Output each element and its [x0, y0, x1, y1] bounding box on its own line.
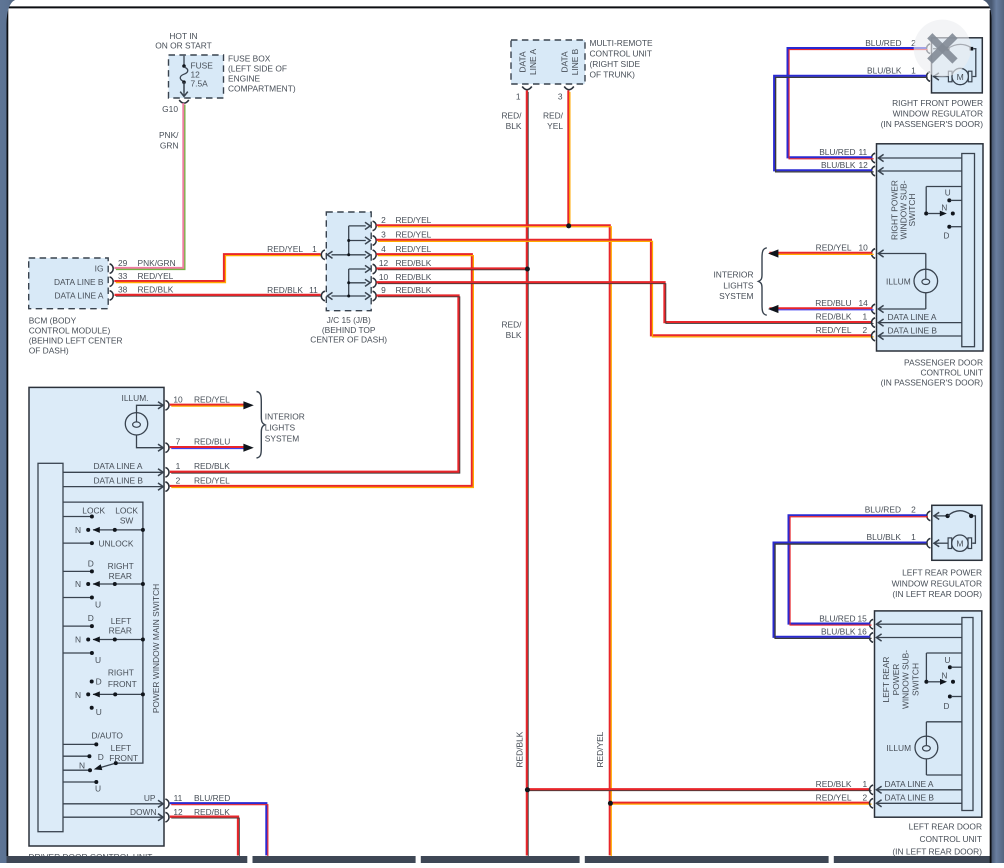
svg-text:RED/YEL: RED/YEL [816, 243, 852, 253]
svg-text:WINDOW REGULATOR: WINDOW REGULATOR [893, 109, 983, 119]
svg-text:D: D [98, 752, 104, 762]
BCM (Body Control Module) U1 [29, 258, 109, 309]
passenger door control unit box [877, 144, 984, 351]
svg-text:2: 2 [863, 792, 868, 802]
wire BLU/RED driver pin 11 down [170, 803, 267, 855]
page frame right edge [990, 10, 992, 863]
wire RED/BLK BCM pin 38 to J/C 15 pin 11 [115, 285, 323, 296]
svg-text:(IN LEFT REAR DOOR): (IN LEFT REAR DOOR) [892, 847, 982, 857]
J/C 15 pin 2 [373, 215, 432, 231]
J/C 15 pin 11 [321, 291, 325, 301]
left rear regulator pin 2 [865, 504, 940, 520]
svg-text:1: 1 [863, 312, 868, 322]
junction RED/BLK J/C pin 12 [525, 267, 530, 272]
svg-text:SWITCH: SWITCH [907, 193, 917, 226]
wire BLU/RED left rear pin 15 to regulator pin 2 [789, 515, 927, 623]
svg-text:REAR: REAR [109, 571, 132, 581]
switch LOCK SW [63, 505, 145, 548]
svg-text:BLK: BLK [506, 330, 522, 340]
svg-text:RED/: RED/ [501, 110, 522, 120]
svg-text:DATA LINE A: DATA LINE A [888, 312, 937, 322]
svg-text:RED/BLK: RED/BLK [396, 258, 432, 268]
svg-text:U: U [945, 656, 951, 665]
J/C 15 pin 3 [373, 230, 432, 246]
multi-remote pin 1 [516, 87, 532, 102]
svg-text:LEFT REAR: LEFT REAR [881, 657, 891, 703]
right front regulator pin 1 [867, 65, 939, 81]
svg-text:G10: G10 [162, 104, 178, 114]
left rear internal bus bar [962, 618, 973, 811]
svg-text:ENGINE: ENGINE [228, 74, 261, 84]
svg-text:CENTER OF DASH): CENTER OF DASH) [310, 335, 387, 345]
svg-text:RED/YEL: RED/YEL [194, 394, 230, 404]
wire RED/YEL J/C pin 2 to long vertical run [376, 225, 611, 857]
svg-text:RED/BLK: RED/BLK [816, 312, 852, 322]
close button [914, 20, 971, 77]
svg-text:12: 12 [379, 258, 389, 268]
svg-text:RED/: RED/ [543, 110, 564, 120]
svg-text:29: 29 [118, 258, 128, 268]
svg-text:(RIGHT SIDE: (RIGHT SIDE [590, 59, 641, 69]
svg-text:RIGHT: RIGHT [108, 668, 134, 678]
wire RED/BLK J/C pin 10 to passenger door pin 1 [377, 282, 873, 322]
svg-text:3: 3 [558, 92, 563, 102]
svg-text:14: 14 [859, 298, 869, 308]
svg-text:16: 16 [858, 627, 868, 637]
svg-text:1: 1 [863, 779, 868, 789]
left rear sub-switch contacts [924, 653, 962, 711]
driver door pin 11 UP [63, 793, 230, 809]
svg-text:D: D [944, 702, 950, 711]
wire RED/YEL BCM pin 33 to J/C 15 pin 1 [114, 244, 322, 282]
junction connector J/C 15 (J/B) [326, 212, 371, 311]
svg-text:BLU/BLK: BLU/BLK [821, 160, 856, 170]
svg-text:RED/: RED/ [501, 320, 522, 330]
svg-text:WINDOW REGULATOR: WINDOW REGULATOR [892, 578, 982, 588]
left rear door pin 16 [821, 627, 962, 643]
svg-text:UNLOCK: UNLOCK [99, 538, 134, 548]
multi-remote pin 3 [558, 87, 574, 102]
passenger door pin 1 DATA LINE A [816, 312, 962, 328]
wire RED/YEL multi-remote pin 3 drop [543, 90, 570, 226]
svg-text:LEFT: LEFT [111, 743, 131, 753]
label RIGHT POWER WINDOW SUB-SWITCH [890, 180, 917, 240]
svg-text:LIGHTS: LIGHTS [723, 280, 754, 290]
svg-text:D/AUTO: D/AUTO [91, 731, 123, 741]
switch LEFT REAR [63, 613, 145, 665]
svg-text:N: N [75, 525, 81, 535]
svg-text:N: N [941, 203, 947, 212]
switch RIGHT REAR [63, 558, 145, 609]
svg-text:FRONT: FRONT [108, 679, 137, 689]
svg-text:2: 2 [381, 215, 386, 225]
svg-text:U: U [95, 599, 101, 609]
svg-text:CONTROL MODULE): CONTROL MODULE) [29, 326, 111, 336]
J/C 15 pin 4 [373, 244, 432, 260]
svg-text:DOWN: DOWN [130, 807, 157, 817]
svg-text:7.5A: 7.5A [191, 79, 209, 89]
svg-text:DATA LINE A: DATA LINE A [54, 291, 103, 301]
wire RED/BLK driver pin 12 down [170, 817, 238, 856]
svg-text:M: M [956, 539, 963, 549]
svg-text:(BEHIND LEFT CENTER: (BEHIND LEFT CENTER [29, 336, 123, 346]
driver door pin 7 [158, 437, 230, 453]
passenger door pin 11 [819, 147, 962, 163]
svg-text:RED/BLK: RED/BLK [816, 779, 852, 789]
svg-text:(LEFT SIDE OF: (LEFT SIDE OF [228, 64, 287, 74]
svg-text:LEFT REAR POWER: LEFT REAR POWER [902, 568, 982, 578]
wire BLU/BLK passenger pin 12 to right front regulator pin 1 [774, 76, 926, 171]
svg-text:BLU/BLK: BLU/BLK [821, 627, 856, 637]
svg-text:D: D [88, 558, 94, 568]
svg-text:10: 10 [379, 272, 389, 282]
svg-text:1: 1 [911, 65, 916, 75]
wire RED/BLK J/C pin 12 to vertical run [377, 267, 527, 269]
wire RED/YEL long vertical to left rear door pin 2 [610, 802, 870, 804]
svg-text:YEL: YEL [547, 121, 563, 131]
svg-text:CONTROL UNIT: CONTROL UNIT [919, 834, 982, 844]
left rear door pin 1 DATA LINE A [816, 779, 962, 795]
svg-text:N: N [942, 672, 948, 681]
wire RED/BLK J/C pin 9 to driver door pin 1 [170, 296, 459, 472]
svg-text:PNK/GRN: PNK/GRN [138, 258, 176, 268]
svg-text:(IN LEFT REAR DOOR): (IN LEFT REAR DOOR) [892, 589, 982, 599]
driver door pin 10 [158, 394, 230, 410]
svg-text:PASSENGER DOOR: PASSENGER DOOR [904, 357, 983, 367]
svg-text:FUSE BOX: FUSE BOX [228, 54, 271, 64]
svg-text:ILLUM: ILLUM [886, 277, 911, 287]
svg-text:11: 11 [309, 285, 318, 295]
svg-text:BCM (BODY: BCM (BODY [29, 316, 77, 326]
svg-text:(IN PASSENGER'S DOOR): (IN PASSENGER'S DOOR) [881, 377, 984, 387]
connector G10 [162, 100, 189, 114]
svg-text:DATA LINE B: DATA LINE B [94, 475, 144, 485]
svg-text:1: 1 [911, 532, 916, 542]
svg-text:N: N [75, 690, 81, 700]
driver door pin 12 DOWN [63, 807, 230, 822]
fuse box FUSE 12 7.5A [169, 55, 224, 98]
svg-text:ON OR START: ON OR START [155, 41, 211, 51]
svg-text:DATA: DATA [518, 51, 528, 73]
svg-text:J/C 15 (J/B): J/C 15 (J/B) [327, 315, 371, 325]
bottom dark boxes row [7, 856, 1004, 863]
svg-text:N: N [79, 761, 85, 771]
svg-text:SW: SW [120, 516, 134, 526]
svg-text:LEFT: LEFT [111, 616, 131, 626]
J/C 15 pin 1 [321, 250, 325, 260]
svg-text:7: 7 [176, 437, 181, 447]
svg-text:2: 2 [176, 475, 181, 485]
svg-text:DATA LINE A: DATA LINE A [94, 461, 143, 471]
lamp ILLUM driver door [122, 393, 163, 448]
right window border bar [983, 0, 1004, 863]
node HOT IN ON OR START [155, 31, 211, 51]
svg-text:DATA LINE A: DATA LINE A [885, 779, 934, 789]
left rear regulator caption [892, 568, 983, 599]
J/C 15 caption [310, 315, 387, 344]
svg-text:33: 33 [118, 271, 128, 281]
svg-text:POWER: POWER [891, 664, 901, 696]
svg-text:(IN PASSENGER'S DOOR): (IN PASSENGER'S DOOR) [881, 119, 984, 129]
svg-text:BLU/RED: BLU/RED [865, 504, 901, 514]
svg-text:CONTROL UNIT: CONTROL UNIT [590, 48, 653, 58]
svg-text:DATA: DATA [560, 51, 570, 73]
svg-text:D: D [88, 613, 94, 623]
svg-text:10: 10 [173, 394, 183, 404]
svg-text:BLU/RED: BLU/RED [819, 613, 855, 623]
svg-text:15: 15 [858, 613, 868, 623]
wire RED/YEL passenger pin 10 to interior lights [768, 249, 874, 257]
svg-text:BLU/RED: BLU/RED [194, 793, 230, 803]
right front regulator caption [881, 98, 984, 129]
svg-text:38: 38 [118, 285, 128, 295]
svg-text:SYSTEM: SYSTEM [265, 434, 299, 444]
label LEFT REAR POWER WINDOW SUB-SWITCH [881, 650, 920, 709]
left rear door pin 2 DATA LINE B [816, 792, 962, 808]
svg-text:OF DASH): OF DASH) [29, 346, 69, 356]
svg-text:PNK/: PNK/ [159, 130, 179, 140]
multi-remote caption [590, 38, 654, 80]
svg-text:UP: UP [144, 793, 156, 803]
svg-text:12: 12 [173, 807, 183, 817]
passenger internal bus bar [962, 154, 975, 347]
switch LEFT FRONT D/AUTO [63, 731, 138, 794]
svg-text:DATA LINE B: DATA LINE B [885, 793, 935, 803]
svg-text:4: 4 [381, 244, 386, 254]
BCM pin 33 [110, 271, 174, 286]
junction RED/YEL bottom [608, 801, 613, 806]
svg-text:RED/YEL: RED/YEL [194, 475, 230, 485]
svg-text:RED/YEL: RED/YEL [595, 731, 605, 767]
svg-text:BLU/BLK: BLU/BLK [867, 532, 902, 542]
svg-text:D: D [944, 232, 950, 241]
multi-remote control unit [511, 40, 585, 84]
svg-text:N: N [75, 579, 81, 589]
svg-text:BLU/RED: BLU/RED [819, 147, 855, 157]
J/C 15 pin 9 [373, 285, 432, 301]
svg-text:OF TRUNK): OF TRUNK) [590, 69, 636, 79]
svg-text:RED/BLK: RED/BLK [194, 461, 230, 471]
svg-text:10: 10 [859, 243, 869, 253]
svg-text:LEFT REAR DOOR: LEFT REAR DOOR [909, 822, 982, 832]
wire RED/BLK long vertical to left rear door pin 1 [527, 788, 870, 790]
svg-text:U: U [945, 189, 951, 198]
passenger door pin 14 [815, 298, 926, 314]
svg-text:IG: IG [95, 264, 104, 274]
brace interior lights system (passenger) [713, 248, 766, 315]
svg-text:(BEHIND TOP: (BEHIND TOP [322, 325, 376, 335]
svg-text:RED/YEL: RED/YEL [138, 271, 174, 281]
svg-text:RED/YEL: RED/YEL [267, 244, 303, 254]
svg-text:RED/BLU: RED/BLU [194, 437, 230, 447]
BCM caption [29, 316, 123, 356]
svg-text:RED/YEL: RED/YEL [396, 230, 432, 240]
J/C 15 pin 12 [373, 258, 432, 274]
svg-text:RED/BLK: RED/BLK [396, 272, 432, 282]
svg-text:U: U [96, 707, 102, 717]
svg-text:LOCK: LOCK [115, 506, 138, 516]
driver door pin 2 DATA LINE B [63, 475, 230, 491]
svg-text:RED/YEL: RED/YEL [816, 325, 852, 335]
svg-text:2: 2 [863, 325, 868, 335]
svg-text:M: M [957, 72, 964, 82]
passenger sub-switch contacts [924, 187, 962, 241]
svg-text:1: 1 [312, 244, 317, 254]
passenger door pin 10 [816, 243, 926, 259]
fuse box caption [228, 54, 296, 94]
svg-text:RED/YEL: RED/YEL [396, 244, 432, 254]
wire RED/YEL driver pin 10 to interior lights [170, 401, 254, 409]
svg-text:RIGHT: RIGHT [108, 561, 134, 571]
wire RED/YEL J/C pin 3 to passenger door pin 2 [376, 240, 872, 336]
J/C 15 pin 10 [373, 272, 432, 288]
svg-text:D: D [96, 677, 102, 687]
junction multi-remote pin3 / J-C pin2 [566, 223, 571, 228]
svg-text:CONTROL UNIT: CONTROL UNIT [920, 367, 983, 377]
left rear regulator pin 1 [867, 532, 940, 548]
wire BLU/BLK left rear pin 16 to regulator pin 1 [774, 543, 927, 637]
svg-text:LOCK: LOCK [82, 505, 105, 515]
left rear power window regulator motor box [932, 505, 982, 560]
svg-text:LINE A: LINE A [528, 49, 538, 75]
svg-text:BLU/RED: BLU/RED [865, 38, 901, 48]
svg-text:U: U [95, 655, 101, 665]
wire BLU/RED passenger pin 11 to right front regulator pin 2 [788, 48, 927, 157]
right front regulator pin 2 [865, 38, 930, 54]
svg-text:SYSTEM: SYSTEM [719, 291, 753, 301]
svg-text:COMPARTMENT): COMPARTMENT) [228, 84, 296, 94]
svg-text:11: 11 [174, 793, 183, 803]
svg-text:RED/BLK: RED/BLK [138, 285, 174, 295]
svg-text:REAR: REAR [109, 625, 132, 635]
wire RED/YEL J/C pin 4 to driver door pin 2 [170, 254, 472, 486]
svg-text:SWITCH: SWITCH [910, 663, 920, 696]
left window border bar [0, 0, 15, 863]
svg-text:3: 3 [381, 230, 386, 240]
svg-text:ILLUM.: ILLUM. [122, 393, 149, 403]
svg-text:1: 1 [176, 461, 181, 471]
svg-text:RED/BLK: RED/BLK [396, 285, 432, 295]
lamp ILLUM passenger door [886, 254, 938, 310]
svg-text:DATA LINE B: DATA LINE B [888, 325, 938, 335]
BCM pin 29 [110, 258, 176, 274]
svg-text:LINE B: LINE B [570, 48, 580, 75]
svg-text:RIGHT FRONT POWER: RIGHT FRONT POWER [892, 98, 983, 108]
svg-text:BLU/BLK: BLU/BLK [867, 65, 902, 75]
svg-text:11: 11 [859, 147, 868, 157]
svg-text:MULTI-REMOTE: MULTI-REMOTE [590, 38, 654, 48]
wire RED/BLK multi-remote pin 1 vertical run [501, 91, 528, 857]
svg-text:FRONT: FRONT [109, 753, 138, 763]
svg-text:12: 12 [859, 160, 869, 170]
left rear door control unit box [875, 611, 982, 817]
svg-text:GRN: GRN [160, 140, 179, 150]
svg-text:DATA LINE B: DATA LINE B [54, 277, 104, 287]
lamp ILLUM left rear door [886, 722, 962, 775]
driver door internal bus bar [38, 463, 63, 831]
wire RED/BLU driver pin 7 to interior lights [170, 444, 254, 452]
brace interior lights system (driver) [257, 392, 305, 459]
svg-text:2: 2 [911, 504, 916, 514]
svg-text:9: 9 [381, 285, 386, 295]
left rear door pin 15 [819, 613, 962, 629]
passenger door pin 2 DATA LINE B [816, 325, 962, 341]
svg-text:U: U [95, 784, 101, 794]
svg-text:RED/BLU: RED/BLU [815, 298, 851, 308]
svg-text:POWER WINDOW MAIN SWITCH: POWER WINDOW MAIN SWITCH [151, 584, 161, 713]
right front power window regulator motor box [932, 38, 983, 93]
junction RED/BLK bottom [525, 787, 530, 792]
svg-text:RED/BLK: RED/BLK [514, 731, 524, 767]
svg-text:BLK: BLK [506, 121, 522, 131]
svg-text:1: 1 [516, 92, 521, 102]
BCM pin 38 [110, 285, 174, 301]
wire RED/BLU passenger pin 14 to interior lights [768, 305, 874, 313]
passenger door pin 12 [821, 160, 962, 176]
svg-text:HOT IN: HOT IN [169, 31, 197, 41]
passenger door caption [881, 357, 984, 387]
driver door pin 1 DATA LINE A [63, 461, 230, 477]
svg-text:RED/BLK: RED/BLK [267, 285, 303, 295]
svg-text:INTERIOR: INTERIOR [265, 412, 305, 422]
svg-text:WINDOW SUB-: WINDOW SUB- [901, 650, 911, 709]
left rear door caption [892, 822, 982, 857]
svg-text:RED/YEL: RED/YEL [816, 792, 852, 802]
power window main switch outline [63, 502, 143, 763]
driver door control unit box [29, 387, 164, 846]
svg-text:RED/BLK: RED/BLK [194, 807, 230, 817]
svg-text:N: N [75, 635, 81, 645]
switch RIGHT FRONT [75, 668, 145, 718]
svg-text:RED/YEL: RED/YEL [396, 215, 432, 225]
wire PNK/GRN fuse G10 to BCM pin 29 [114, 103, 185, 269]
svg-text:LIGHTS: LIGHTS [265, 423, 296, 433]
svg-text:INTERIOR: INTERIOR [713, 270, 753, 280]
svg-text:ILLUM: ILLUM [886, 743, 911, 753]
